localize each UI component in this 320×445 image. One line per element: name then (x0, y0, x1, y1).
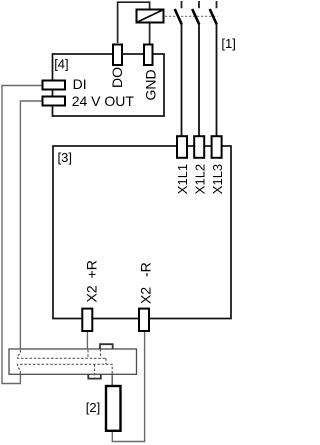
wire from 24V OUT terminal to left bus B (20, 101, 41, 349)
wire from trip coil down to GND terminal (149, 24, 151, 44)
svg-text:[2]: [2] (86, 400, 100, 415)
wire from connector bar to box [2] (111, 374, 113, 385)
circuit breaker pole 2 (192, 1, 199, 137)
terminal DI (left) (43, 81, 66, 90)
terminal X1L1 (177, 136, 187, 158)
svg-text:X1L1: X1L1 (175, 164, 190, 194)
dashed cable row 1 (18, 350, 107, 358)
wire from DO terminal up and over to trip coil (118, 2, 150, 43)
svg-text:GND: GND (143, 69, 159, 100)
connector key bump top (100, 344, 113, 349)
wire from X2-R terminal down, bottom loop to box [2] (112, 332, 144, 442)
box [2] brake resistor (106, 386, 121, 431)
terminal 24V OUT (left) (43, 97, 66, 106)
trip coil / release F1 (rect with diagonal) (137, 10, 164, 23)
svg-text:X1L3: X1L3 (210, 164, 225, 194)
box [3] drive outline (53, 146, 231, 319)
connector bar (cable duct) (9, 349, 137, 374)
circuit breaker pole 1 (175, 1, 182, 137)
connector key bump bottom (88, 374, 101, 378)
box [4] control unit outline (53, 54, 165, 116)
wire from X2+R terminal down to connector bar (86, 332, 88, 349)
wire from DI terminal to left bus A (2, 86, 42, 384)
terminal DO (113, 45, 122, 66)
svg-text:[3]: [3] (58, 150, 72, 165)
terminal X1L3 (212, 136, 222, 158)
dashed drop to bottom key (100, 345, 102, 359)
terminal X2-R (139, 309, 149, 331)
svg-text:X2 +R: X2 +R (84, 260, 100, 302)
dashed cable row 2 (18, 364, 113, 374)
dashed drop inside bottom bump (94, 364, 96, 377)
circuit breaker pole 3 (210, 1, 217, 137)
terminal GND (144, 45, 153, 66)
svg-text:[4]: [4] (54, 57, 68, 72)
dashed mechanical link line (165, 15, 218, 17)
svg-text:X2 -R: X2 -R (137, 262, 153, 304)
svg-text:X1L2: X1L2 (193, 164, 208, 194)
terminal X1L2 (194, 136, 204, 158)
svg-text:24 V OUT: 24 V OUT (72, 93, 135, 109)
svg-text:DO: DO (109, 67, 125, 88)
svg-text:[1]: [1] (221, 36, 235, 51)
terminal X2+R (82, 309, 92, 331)
svg-text:DI: DI (73, 76, 87, 92)
dashed drop from X2+R wire (87, 350, 89, 358)
